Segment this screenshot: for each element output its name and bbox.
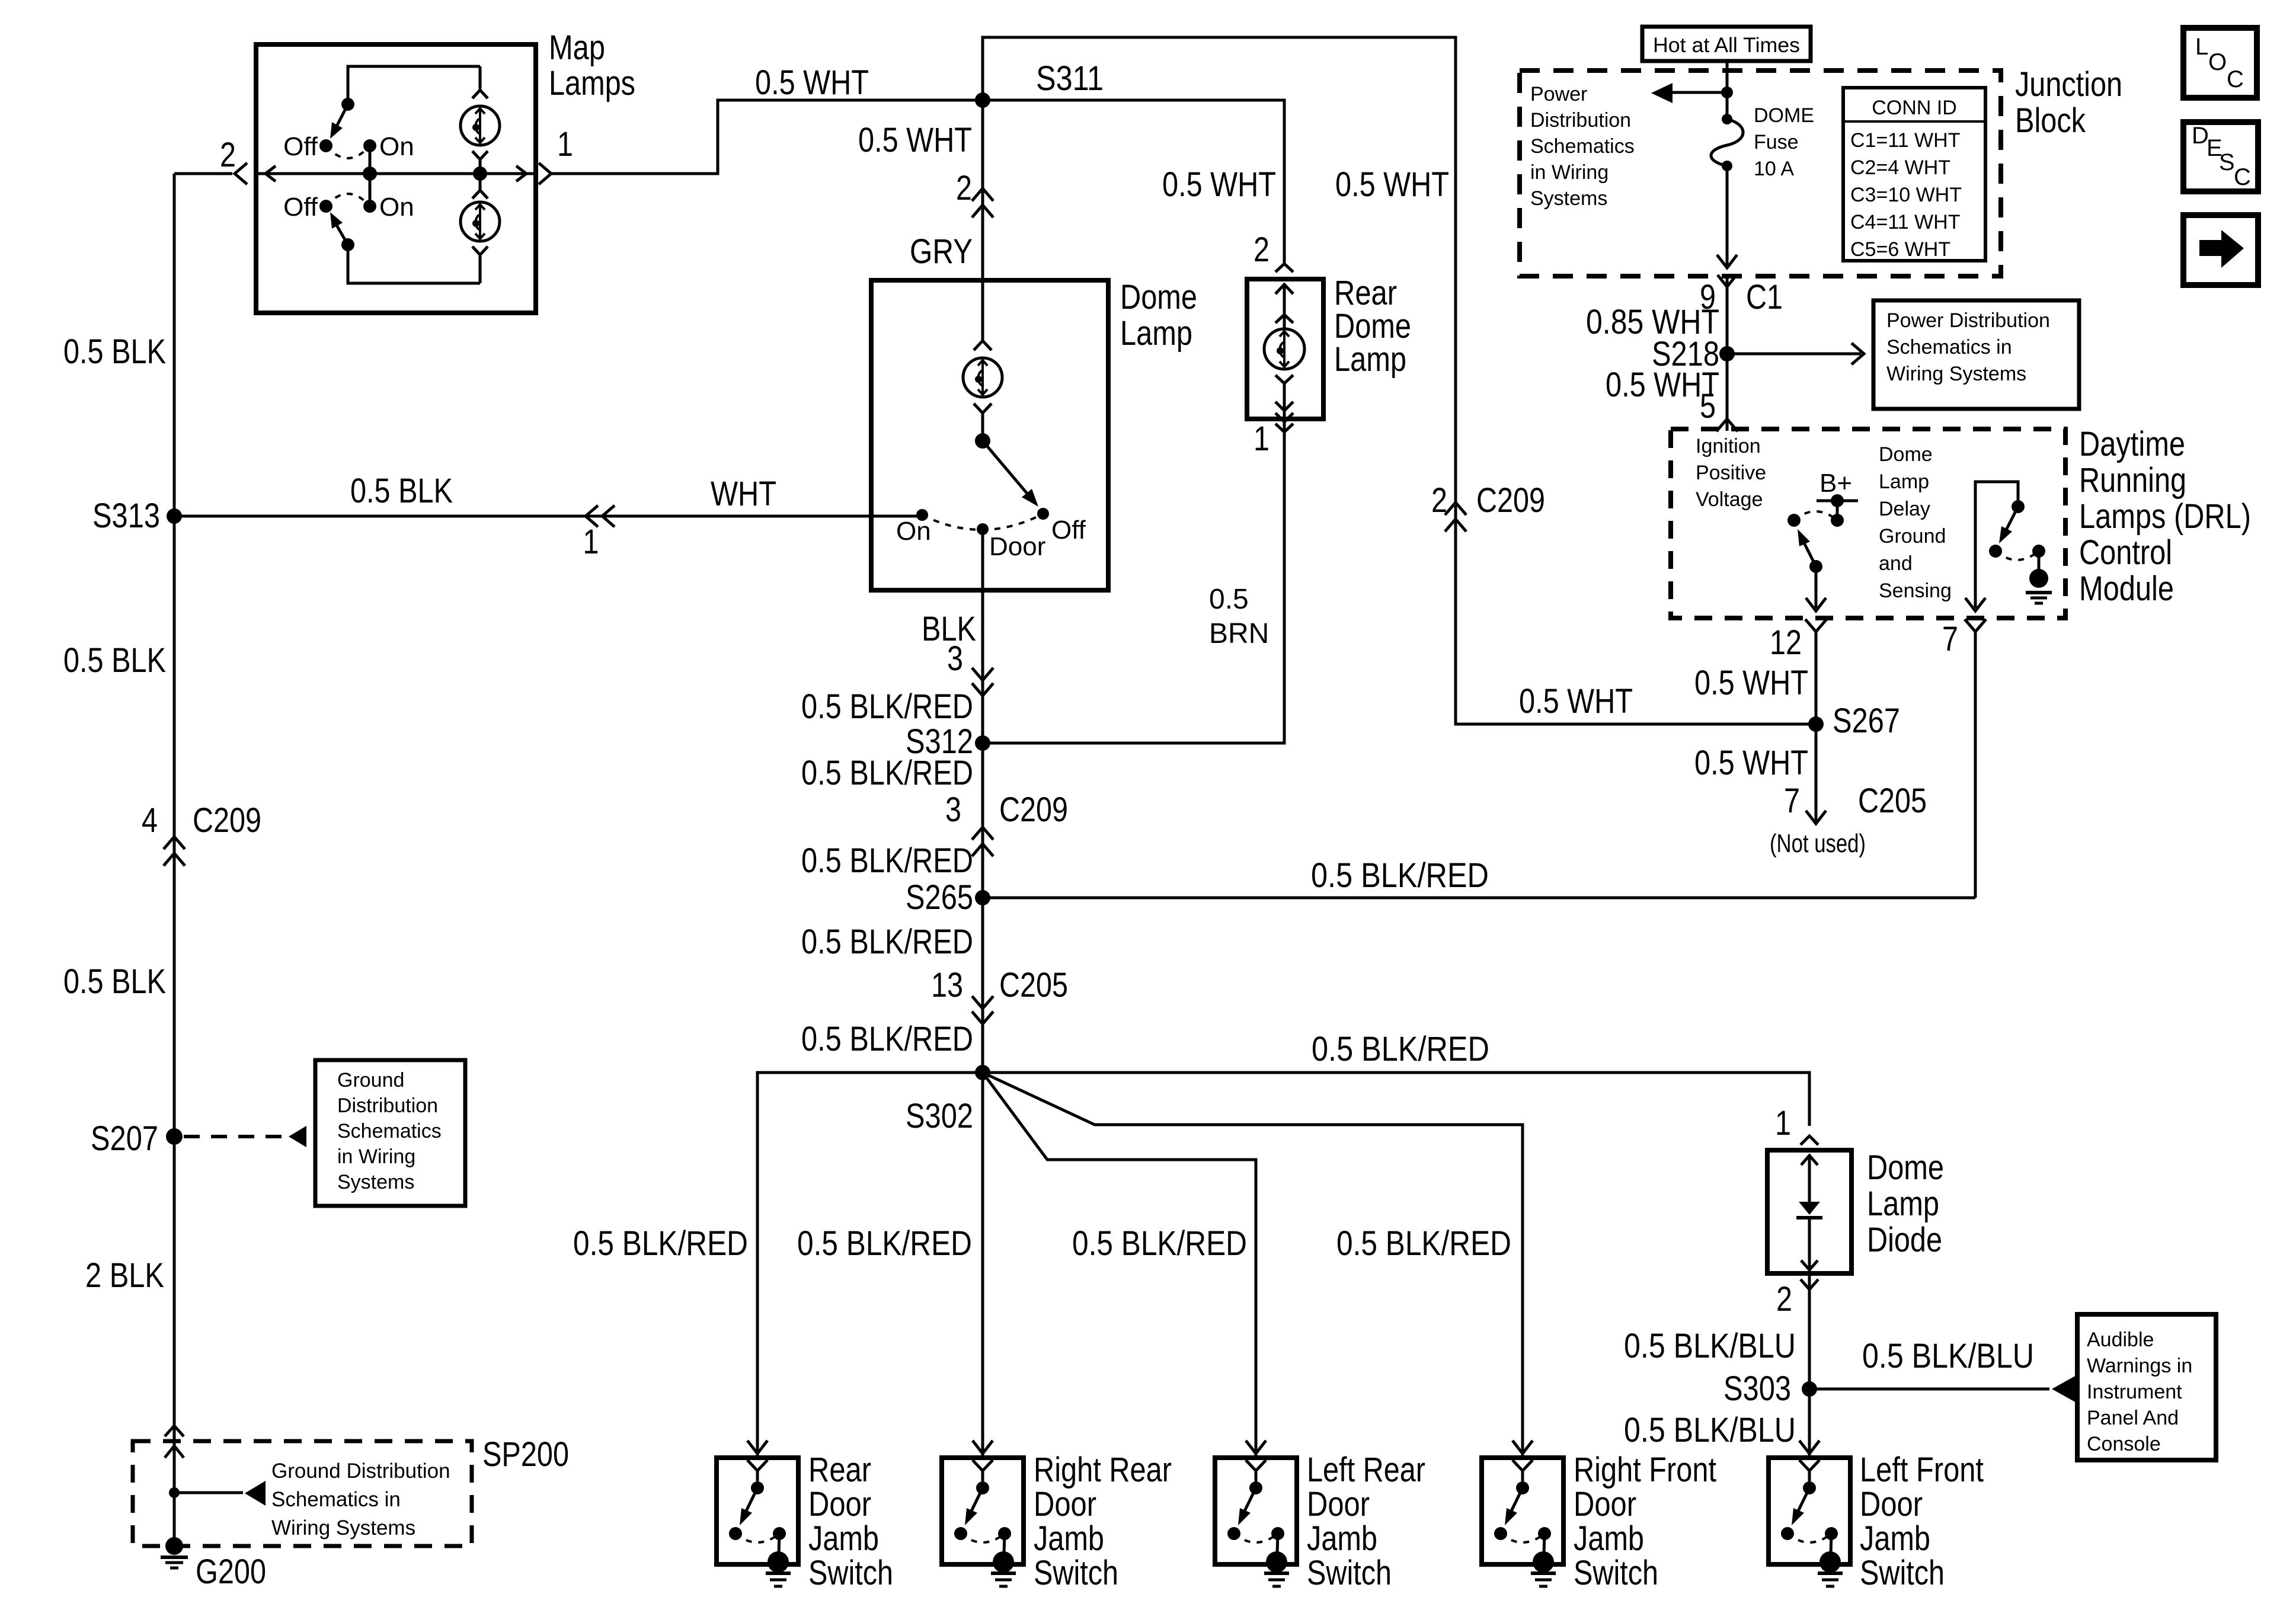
node S312 [975, 735, 990, 751]
svg-text:Sensing: Sensing [1879, 580, 1952, 602]
svg-text:0.5 BLK/RED: 0.5 BLK/RED [801, 754, 973, 792]
svg-text:S303: S303 [1723, 1369, 1791, 1408]
svg-text:1: 1 [1775, 1104, 1791, 1142]
svg-text:Fuse: Fuse [1754, 131, 1799, 153]
wire DRL pin 7 to S265 line [1974, 632, 1977, 898]
svg-text:Door: Door [1307, 1485, 1370, 1523]
svg-text:0.5 BLK/RED: 0.5 BLK/RED [573, 1224, 748, 1263]
svg-text:Left Front: Left Front [1860, 1451, 1984, 1489]
connector pin 1 of map lamps [539, 163, 551, 184]
svg-text:C3=10 WHT: C3=10 WHT [1850, 184, 1962, 206]
connector C1 pin 9 [1718, 275, 1737, 287]
node S265 [975, 890, 990, 905]
svg-text:S311: S311 [1036, 59, 1104, 98]
node S313 [167, 508, 182, 524]
left rear door jamb switch [1246, 1441, 1266, 1454]
wire map lamps pin 1 to S311 [551, 100, 983, 174]
node S218 [1719, 346, 1735, 361]
svg-text:Right Front: Right Front [1574, 1451, 1716, 1489]
svg-text:C5=6 WHT: C5=6 WHT [1850, 238, 1950, 261]
svg-text:0.5 WHT: 0.5 WHT [858, 121, 972, 159]
svg-text:Dome: Dome [1879, 443, 1933, 466]
svg-text:0.5 BLK/BLU: 0.5 BLK/BLU [1624, 1327, 1796, 1365]
off-page arrow to audible warnings [2052, 1375, 2077, 1403]
svg-text:C4=11 WHT: C4=11 WHT [1850, 211, 1960, 233]
svg-text:Ground: Ground [1879, 525, 1946, 548]
svg-text:Jamb: Jamb [1034, 1519, 1104, 1558]
wire map lamp switch common bar [369, 146, 372, 206]
svg-text:Power Distribution: Power Distribution [1886, 309, 2050, 332]
map lamp switch assembly box [256, 44, 536, 313]
svg-text:0.5 BLK/BLU: 0.5 BLK/BLU [1862, 1337, 2034, 1375]
svg-text:Switch: Switch [1034, 1554, 1118, 1592]
svg-text:Hot at All Times: Hot at All Times [1653, 34, 1800, 57]
map lamp switch SW1 (upper) [319, 139, 332, 152]
svg-text:Daytime: Daytime [2079, 425, 2185, 463]
daytime running lamps control module dashed box [1671, 429, 2065, 618]
svg-text:3: 3 [947, 639, 963, 678]
svg-text:Diode: Diode [1867, 1221, 1942, 1259]
legend DESC icon [2183, 122, 2258, 191]
svg-text:Right Rear: Right Rear [1034, 1451, 1172, 1489]
svg-text:Panel And: Panel And [2087, 1407, 2179, 1429]
svg-text:5: 5 [1700, 387, 1716, 425]
svg-text:Module: Module [2079, 569, 2174, 608]
svg-text:0.5 BLK/RED: 0.5 BLK/RED [1336, 1224, 1511, 1263]
svg-text:L: L [2195, 34, 2208, 60]
svg-text:1: 1 [1253, 420, 1269, 458]
junction block dashed box [1520, 71, 2001, 276]
svg-text:C209: C209 [193, 801, 261, 840]
dome lamp assembly box [871, 280, 1108, 590]
svg-text:0.5 BLK/BLU: 0.5 BLK/BLU [1624, 1411, 1796, 1449]
svg-text:Instrument: Instrument [2087, 1381, 2182, 1403]
wire rear dome lamp pin 1 to S312 [983, 419, 1284, 743]
svg-text:G200: G200 [196, 1553, 266, 1591]
svg-text:Control: Control [2079, 533, 2172, 572]
dome lamp switch [975, 433, 990, 449]
svg-text:0.5 BLK/RED: 0.5 BLK/RED [797, 1224, 972, 1263]
wire S302 to left rear door jamb switch [983, 1073, 1256, 1458]
wire S302 to right front door jamb switch [983, 1073, 1523, 1458]
svg-text:C209: C209 [999, 790, 1068, 829]
svg-text:Switch: Switch [1307, 1554, 1392, 1592]
rear dome lamp bulb [1283, 284, 1286, 329]
wire S265 to DRL pin 7 [983, 897, 1975, 900]
svg-text:10 A: 10 A [1754, 158, 1794, 180]
power distribution schematics box [1873, 300, 2079, 409]
node map lamp bus junctions [363, 167, 377, 181]
node S303 [1802, 1381, 1817, 1397]
svg-text:and: and [1879, 552, 1913, 575]
svg-text:Door: Door [808, 1485, 871, 1523]
svg-text:0.5 BLK: 0.5 BLK [63, 962, 166, 1001]
svg-text:Off: Off [283, 193, 318, 222]
svg-text:Jamb: Jamb [1860, 1519, 1930, 1558]
svg-text:Schematics: Schematics [1530, 135, 1635, 158]
ground distribution schematics box [315, 1060, 465, 1206]
connector dome lamp diode pin 1 [1801, 1136, 1818, 1145]
svg-text:Lamp: Lamp [1867, 1185, 1939, 1223]
wire S267 to C205 pin 7 not used [1815, 724, 1818, 821]
svg-text:2: 2 [1431, 481, 1447, 520]
svg-text:0.5 BLK: 0.5 BLK [350, 472, 453, 510]
svg-text:C209: C209 [1476, 481, 1545, 520]
svg-text:0.5 BLK/RED: 0.5 BLK/RED [801, 1020, 973, 1058]
wire map lamps internal bus [258, 172, 533, 175]
svg-text:0.5 WHT: 0.5 WHT [1335, 165, 1449, 204]
dome lamp bulb [974, 341, 992, 350]
svg-text:3: 3 [945, 790, 961, 829]
svg-text:Off: Off [283, 132, 318, 161]
svg-text:2: 2 [956, 169, 972, 207]
svg-text:On: On [379, 132, 414, 161]
svg-text:Door: Door [1574, 1485, 1636, 1523]
svg-text:C205: C205 [1858, 782, 1927, 820]
wire S302 to rear door jamb switch [757, 1073, 983, 1458]
right front door jamb switch [1512, 1441, 1533, 1454]
svg-text:0.5 BLK/RED: 0.5 BLK/RED [1311, 856, 1489, 895]
svg-text:S267: S267 [1833, 702, 1900, 740]
right rear door jamb switch [973, 1441, 993, 1454]
svg-text:2: 2 [1776, 1280, 1792, 1318]
svg-text:0.5 WHT: 0.5 WHT [1694, 744, 1808, 782]
connector dome lamp pin 2 [972, 188, 993, 201]
wire S302 to dome lamp diode [983, 1073, 1809, 1126]
svg-text:WHT: WHT [711, 475, 776, 513]
svg-text:Jamb: Jamb [808, 1519, 879, 1558]
svg-text:Block: Block [2015, 101, 2086, 140]
node S302 [975, 1065, 990, 1080]
svg-text:C205: C205 [999, 966, 1068, 1004]
wire dome lamp pin 3 to S302 [981, 590, 984, 1458]
svg-text:0.5 BLK/RED: 0.5 BLK/RED [801, 841, 973, 880]
svg-text:2: 2 [1253, 231, 1269, 269]
svg-text:Wiring Systems: Wiring Systems [271, 1516, 415, 1539]
dome lamp diode box [1767, 1150, 1851, 1273]
DRL delay switch [1787, 514, 1801, 527]
svg-text:Switch: Switch [1574, 1554, 1658, 1592]
svg-text:Audible: Audible [2087, 1329, 2154, 1351]
svg-text:0.5: 0.5 [1209, 584, 1249, 615]
node S207 [166, 1128, 183, 1145]
svg-text:2: 2 [220, 136, 236, 174]
connector DRL pin 12 [1805, 619, 1827, 632]
svg-text:Off: Off [1051, 516, 1086, 545]
svg-text:7: 7 [1942, 620, 1958, 658]
rear dome lamp box [1247, 279, 1323, 419]
svg-text:4: 4 [142, 801, 158, 840]
connector rear dome lamp pin 1 [1275, 424, 1293, 432]
connector pin 2 of map lamps [235, 163, 247, 184]
svg-text:C: C [2227, 66, 2244, 92]
svg-text:Schematics in: Schematics in [1886, 336, 2012, 359]
legend LOC icon [2183, 28, 2257, 98]
svg-text:(Not used): (Not used) [1770, 829, 1866, 858]
wire SW2 to lower rail [348, 245, 480, 283]
DRL internal ground [2029, 569, 2048, 588]
svg-text:CONN ID: CONN ID [1872, 97, 1957, 119]
wire hot feed into junction block [1726, 61, 1729, 118]
svg-text:0.5 WHT: 0.5 WHT [1162, 165, 1276, 204]
wire S311 to dome lamp [981, 100, 984, 341]
svg-text:Positive: Positive [1696, 462, 1766, 484]
wire arrow to power distribution [1671, 91, 1727, 94]
svg-text:0.5 BLK/RED: 0.5 BLK/RED [1312, 1030, 1489, 1068]
svg-text:Lamp: Lamp [1334, 340, 1406, 379]
svg-text:Map: Map [549, 28, 605, 67]
svg-text:Door: Door [989, 532, 1045, 561]
svg-text:Door: Door [1860, 1485, 1923, 1523]
svg-text:1: 1 [557, 125, 573, 164]
svg-text:GRY: GRY [910, 232, 973, 271]
svg-text:C1: C1 [1746, 278, 1783, 316]
svg-text:Rear: Rear [808, 1451, 871, 1489]
wire S311 top rail to C209 and S267 [983, 37, 1816, 724]
wire C1 to S218 to DRL pin 5 [1726, 276, 1729, 431]
svg-text:0.5 BLK/RED: 0.5 BLK/RED [1072, 1224, 1247, 1263]
wire S313 to dome lamp On contact [174, 515, 922, 518]
map lamp bulb E1 (upper) [479, 66, 482, 90]
svg-text:1: 1 [583, 523, 599, 561]
svg-text:Jamb: Jamb [1574, 1519, 1644, 1558]
svg-text:0.5 BLK: 0.5 BLK [63, 641, 166, 680]
svg-text:0.5 WHT: 0.5 WHT [1694, 664, 1808, 702]
off-page arrow SP200 to ground distribution [245, 1481, 266, 1506]
connector rear dome lamp pin 2 [1275, 264, 1293, 272]
connector DRL pin 7 [1965, 619, 1986, 632]
connector C209 pin 4 (0.5 BLK) [164, 837, 185, 849]
connector C209 pin 2 (0.5 WHT) [1445, 502, 1466, 515]
left front door jamb switch [1799, 1441, 1819, 1454]
svg-text:Wiring Systems: Wiring Systems [1886, 363, 2026, 385]
svg-text:S313: S313 [92, 497, 160, 535]
svg-text:7: 7 [1784, 782, 1800, 820]
wire S311 to rear dome lamp pin 2 [983, 100, 1284, 263]
node S267 [1808, 716, 1824, 732]
svg-text:SP200: SP200 [482, 1435, 569, 1474]
svg-text:O: O [2208, 49, 2227, 75]
svg-text:Running: Running [2079, 461, 2186, 500]
svg-text:C: C [2234, 164, 2251, 190]
splice pack SP200 box [133, 1441, 472, 1546]
svg-text:Lamp: Lamp [1120, 314, 1192, 353]
legend forward arrow icon [2183, 215, 2258, 285]
power feed label box: Hot at All Times [1642, 27, 1811, 61]
wire left ground column [173, 174, 176, 1546]
svg-text:0.5 BLK/RED: 0.5 BLK/RED [801, 923, 973, 961]
node S311 [975, 92, 990, 108]
ground G200 [165, 1537, 183, 1555]
svg-text:0.5 BLK/RED: 0.5 BLK/RED [801, 687, 973, 726]
wire dome lamp door contact to pin 3 [981, 529, 984, 590]
DRL ground sensing switch [1975, 482, 2018, 607]
map lamp switch SW2 (lower) [319, 200, 332, 213]
wire fuse to connector C1 [1726, 166, 1729, 265]
svg-text:Systems: Systems [1530, 187, 1607, 210]
svg-text:S207: S207 [91, 1119, 158, 1158]
svg-text:12: 12 [1770, 623, 1802, 662]
connector dome lamp diode pin 2 [1801, 1279, 1818, 1289]
wire DRL pin 12 internal [1809, 560, 1822, 573]
svg-text:Console: Console [2087, 1433, 2161, 1455]
svg-text:C2=4 WHT: C2=4 WHT [1850, 156, 1950, 179]
svg-text:Voltage: Voltage [1696, 488, 1763, 511]
wire DRL pin 7 internal arrow [1974, 607, 1977, 608]
svg-text:Schematics in: Schematics in [271, 1488, 401, 1511]
svg-text:Ignition: Ignition [1696, 435, 1761, 457]
svg-text:Warnings in: Warnings in [2087, 1355, 2192, 1377]
svg-text:13: 13 [931, 966, 963, 1004]
svg-text:0.5 WHT: 0.5 WHT [1519, 682, 1633, 721]
svg-text:Ground: Ground [337, 1069, 404, 1092]
svg-text:Distribution: Distribution [337, 1094, 438, 1117]
svg-text:Distribution: Distribution [1530, 109, 1631, 132]
svg-text:in Wiring: in Wiring [1530, 161, 1609, 184]
wire DRL pin 12 to S267 [1815, 632, 1818, 724]
svg-text:Power: Power [1530, 83, 1587, 105]
svg-text:Delay: Delay [1879, 498, 1930, 520]
map lamp bulb E2 (lower) [479, 175, 482, 190]
svg-text:Lamps: Lamps [549, 64, 635, 103]
svg-text:S: S [2219, 149, 2235, 175]
connector SP200 entry [165, 1426, 184, 1436]
svg-text:BRN: BRN [1209, 618, 1269, 649]
wire SW1 to upper rail [348, 66, 480, 104]
audible warnings box [2077, 1314, 2216, 1460]
svg-text:in Wiring: in Wiring [337, 1145, 415, 1168]
wire map lamps pin 2 to left column [174, 172, 232, 175]
svg-text:0.5 BLK: 0.5 BLK [63, 332, 166, 371]
wire arrow S218 to power distribution schematics [1727, 353, 1861, 356]
svg-text:Systems: Systems [337, 1171, 414, 1193]
svg-text:Dome: Dome [1867, 1148, 1944, 1187]
off-page arrow to ground distribution [289, 1126, 306, 1147]
wire S303 to audible warnings [1809, 1388, 2049, 1391]
wire S207 reference (dashed) [184, 1135, 286, 1138]
svg-text:Door: Door [1034, 1485, 1096, 1523]
fuse DOME 10A [1722, 114, 1732, 124]
svg-text:Dome: Dome [1120, 278, 1197, 316]
svg-text:On: On [896, 517, 931, 546]
svg-text:Junction: Junction [2015, 65, 2122, 104]
connector inline pin 1 (WHT) [586, 505, 598, 527]
svg-text:S302: S302 [906, 1097, 973, 1135]
svg-text:On: On [379, 193, 414, 222]
wire SP200 internal [165, 1446, 184, 1458]
rear door jamb switch [747, 1441, 768, 1454]
svg-text:Lamp: Lamp [1879, 470, 1929, 493]
node fuse feed junction [1721, 87, 1733, 98]
svg-text:Left Rear: Left Rear [1307, 1451, 1425, 1489]
svg-text:0.5 WHT: 0.5 WHT [755, 63, 869, 102]
svg-text:Lamps (DRL): Lamps (DRL) [2079, 497, 2251, 536]
svg-text:Ground Distribution: Ground Distribution [271, 1459, 450, 1483]
svg-text:Switch: Switch [808, 1554, 893, 1592]
diode CR1 [1808, 1155, 1811, 1202]
wire diode pin 2 to S303 to left front door jamb switch [1808, 1273, 1811, 1458]
svg-text:B+: B+ [1819, 469, 1852, 498]
svg-text:2 BLK: 2 BLK [85, 1256, 164, 1295]
svg-text:C1=11 WHT: C1=11 WHT [1850, 129, 1960, 152]
svg-text:Jamb: Jamb [1307, 1519, 1377, 1558]
CONN ID table [1843, 88, 1985, 261]
svg-text:S265: S265 [906, 878, 973, 917]
svg-text:DOME: DOME [1754, 104, 1814, 127]
svg-text:Switch: Switch [1860, 1554, 1945, 1592]
svg-text:Schematics: Schematics [337, 1120, 442, 1142]
